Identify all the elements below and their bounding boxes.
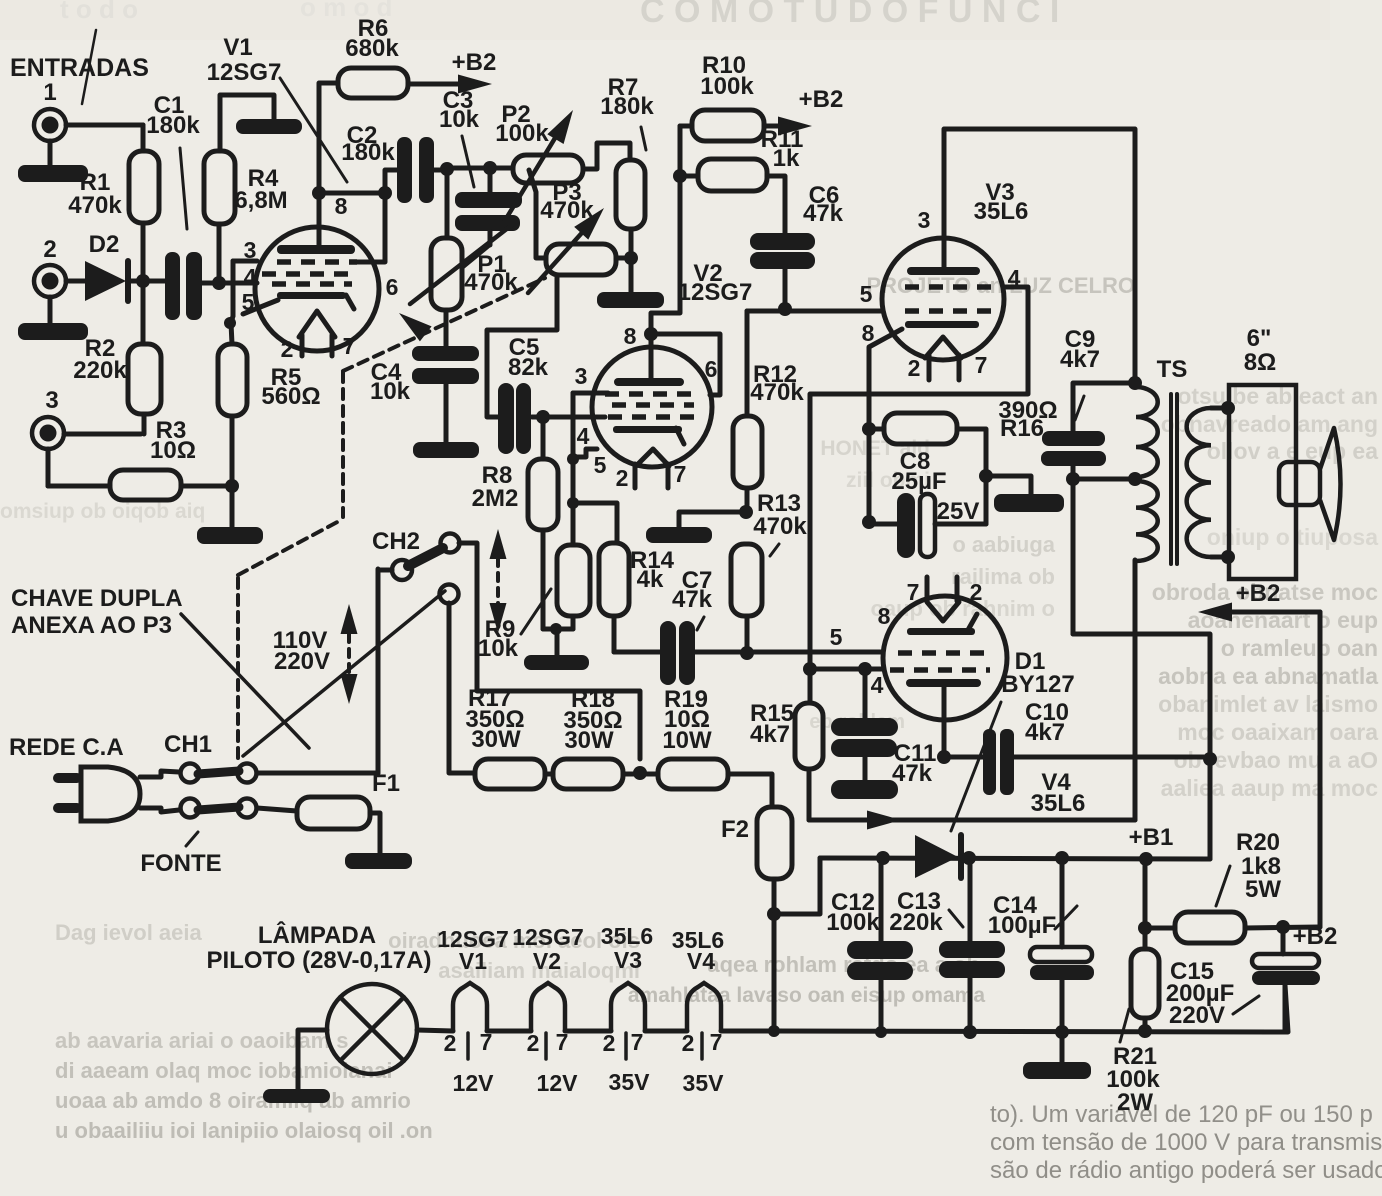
- svg-text:10Ω: 10Ω: [150, 437, 196, 464]
- svg-text:7: 7: [907, 579, 920, 605]
- svg-text:com tensão de 1000 V para tra: com tensão de 1000 V para transmis-: [990, 1129, 1382, 1156]
- svg-text:+B2: +B2: [452, 49, 497, 76]
- svg-text:470k: 470k: [750, 379, 804, 406]
- svg-text:V4: V4: [687, 948, 715, 974]
- svg-text:railima ob: railima ob: [951, 564, 1055, 589]
- svg-text:3: 3: [45, 387, 58, 414]
- svg-text:6,8M: 6,8M: [234, 187, 287, 214]
- svg-text:2: 2: [43, 236, 56, 263]
- svg-text:12SG7: 12SG7: [512, 924, 584, 950]
- svg-text:7: 7: [674, 461, 687, 487]
- svg-text:obanimlet av laismo: obanimlet av laismo: [1158, 691, 1378, 717]
- svg-text:LÂMPADA: LÂMPADA: [258, 921, 376, 949]
- svg-text:220k: 220k: [889, 909, 943, 936]
- svg-text:2M2: 2M2: [472, 485, 519, 512]
- svg-text:REDE C.A: REDE C.A: [9, 734, 124, 761]
- svg-text:25µF: 25µF: [891, 468, 946, 495]
- svg-text:82k: 82k: [508, 354, 549, 381]
- svg-text:8: 8: [335, 193, 348, 219]
- svg-text:oniup o tiuposa: oniup o tiuposa: [1207, 524, 1378, 550]
- svg-text:680k: 680k: [345, 35, 399, 62]
- svg-text:8: 8: [624, 323, 637, 349]
- svg-text:470k: 470k: [753, 513, 807, 540]
- svg-text:1: 1: [43, 79, 56, 106]
- svg-text:25V: 25V: [937, 498, 980, 525]
- svg-text:6: 6: [705, 356, 718, 382]
- svg-text:4: 4: [871, 672, 884, 698]
- svg-text:amahlataa lavaso oan eisup oma: amahlataa lavaso oan eisup omama: [628, 984, 985, 1007]
- svg-text:3: 3: [918, 207, 931, 233]
- svg-text:2: 2: [970, 579, 983, 605]
- svg-text:+B2: +B2: [1293, 923, 1338, 950]
- svg-text:aqea rohlam ratdo ea a ob: aqea rohlam ratdo ea a ob: [707, 952, 980, 977]
- svg-text:C O M O T U D O F U: C O M O T U D O F U N C I: [640, 0, 1059, 30]
- svg-text:100k: 100k: [700, 73, 754, 100]
- svg-text:7: 7: [975, 352, 988, 378]
- svg-text:R16: R16: [1000, 415, 1044, 442]
- svg-text:12V: 12V: [537, 1070, 579, 1096]
- svg-text:100µF: 100µF: [988, 912, 1057, 939]
- svg-text:5W: 5W: [1245, 876, 1281, 903]
- svg-text:3: 3: [575, 363, 588, 389]
- svg-text:aaliea aaup ma moc: aaliea aaup ma moc: [1161, 775, 1379, 801]
- svg-text:35L6: 35L6: [974, 198, 1029, 225]
- svg-text:V3: V3: [614, 947, 642, 973]
- svg-text:+B1: +B1: [1129, 824, 1174, 851]
- svg-text:D2: D2: [89, 231, 120, 258]
- svg-text:2: 2: [444, 1030, 457, 1056]
- svg-text:7: 7: [556, 1029, 569, 1055]
- svg-text:4k7: 4k7: [1025, 719, 1065, 746]
- svg-text:47k: 47k: [803, 200, 844, 227]
- svg-text:35L6: 35L6: [601, 923, 653, 949]
- svg-text:omsiup ob oiqob aiq: omsiup ob oiqob aiq: [0, 500, 205, 523]
- svg-text:12SG7: 12SG7: [207, 59, 282, 86]
- svg-text:2W: 2W: [1117, 1089, 1153, 1116]
- svg-text:4: 4: [577, 423, 590, 449]
- svg-text:2: 2: [281, 336, 294, 362]
- svg-text:100k: 100k: [495, 120, 549, 147]
- svg-text:7: 7: [710, 1029, 723, 1055]
- svg-text:CH2: CH2: [372, 528, 420, 555]
- svg-text:2: 2: [527, 1030, 540, 1056]
- svg-text:470k: 470k: [68, 192, 122, 219]
- svg-text:4k7: 4k7: [1060, 346, 1100, 373]
- svg-text:+B2: +B2: [1236, 580, 1281, 607]
- svg-text:7: 7: [480, 1029, 493, 1055]
- svg-text:t o d o: t o d o: [60, 0, 138, 24]
- svg-text:220V: 220V: [274, 648, 330, 675]
- svg-text:180k: 180k: [600, 93, 654, 120]
- svg-text:Dag ievol aeia: Dag ievol aeia: [55, 920, 203, 945]
- svg-text:47k: 47k: [892, 760, 933, 787]
- svg-text:V1: V1: [459, 948, 487, 974]
- svg-text:5: 5: [830, 624, 843, 650]
- svg-text:4k7: 4k7: [750, 721, 790, 748]
- svg-text:220V: 220V: [1169, 1002, 1225, 1029]
- svg-text:5: 5: [860, 281, 873, 307]
- svg-text:u obaailiiu ioi lanipiio olaio: u obaailiiu ioi lanipiio olaiosq oil .on: [55, 1118, 433, 1143]
- svg-text:ANEXA AO P3: ANEXA AO P3: [11, 612, 172, 639]
- svg-text:R20: R20: [1236, 829, 1280, 856]
- svg-text:5: 5: [594, 452, 607, 478]
- svg-text:são de rádio antigo poderá ser: são de rádio antigo poderá ser usado: [990, 1157, 1382, 1184]
- svg-text:35V: 35V: [683, 1070, 725, 1096]
- svg-text:560Ω: 560Ω: [261, 383, 320, 410]
- svg-text:47k: 47k: [672, 586, 713, 613]
- svg-text:BY127: BY127: [1001, 671, 1074, 698]
- svg-text:o ramleup oan: o ramleup oan: [1221, 635, 1378, 661]
- svg-text:30W: 30W: [564, 727, 614, 754]
- svg-text:6: 6: [386, 274, 399, 300]
- svg-text:100k: 100k: [826, 909, 880, 936]
- svg-text:+B2: +B2: [799, 86, 844, 113]
- svg-text:180k: 180k: [341, 139, 395, 166]
- svg-text:8: 8: [862, 320, 875, 346]
- svg-text:2: 2: [603, 1030, 616, 1056]
- svg-text:8: 8: [878, 603, 891, 629]
- svg-text:CH1: CH1: [164, 731, 212, 758]
- svg-text:10W: 10W: [662, 727, 712, 754]
- svg-text:470k: 470k: [464, 269, 518, 296]
- svg-text:V2: V2: [533, 948, 561, 974]
- svg-text:7: 7: [343, 333, 356, 359]
- svg-text:moc oaaixam oara: moc oaaixam oara: [1177, 719, 1378, 745]
- svg-text:6": 6": [1247, 325, 1272, 352]
- svg-text:2: 2: [682, 1030, 695, 1056]
- svg-text:7: 7: [631, 1029, 644, 1055]
- svg-text:12SG7: 12SG7: [678, 279, 753, 306]
- svg-text:to). Um variável de 120 pF ou: to). Um variável de 120 pF ou 150 p: [990, 1101, 1373, 1128]
- svg-text:3: 3: [244, 237, 257, 263]
- svg-text:2: 2: [908, 355, 921, 381]
- svg-text:8Ω: 8Ω: [1244, 349, 1277, 376]
- svg-text:4k: 4k: [637, 566, 664, 593]
- svg-text:PILOTO (28V-0,17A): PILOTO (28V-0,17A): [207, 947, 432, 974]
- svg-text:F2: F2: [721, 816, 749, 843]
- svg-text:V1: V1: [223, 34, 252, 61]
- svg-text:1k: 1k: [773, 145, 800, 172]
- svg-text:10k: 10k: [439, 106, 480, 133]
- svg-text:10k: 10k: [370, 378, 411, 405]
- svg-text:30W: 30W: [471, 726, 521, 753]
- svg-text:TS: TS: [1157, 356, 1188, 383]
- svg-text:35V: 35V: [609, 1069, 651, 1095]
- svg-text:o aabiuga: o aabiuga: [952, 532, 1055, 557]
- svg-text:180k: 180k: [146, 112, 200, 139]
- svg-text:CHAVE DUPLA: CHAVE DUPLA: [11, 585, 183, 612]
- svg-text:12V: 12V: [453, 1070, 495, 1096]
- svg-text:220k: 220k: [73, 357, 127, 384]
- svg-text:aobna ea abnamatla: aobna ea abnamatla: [1158, 663, 1378, 689]
- svg-text:FONTE: FONTE: [140, 850, 221, 877]
- svg-text:uoaa ab amdo 8 oiramiiq ab amr: uoaa ab amdo 8 oiramiiq ab amrio: [55, 1088, 411, 1113]
- svg-text:10k: 10k: [478, 635, 519, 662]
- svg-text:ENTRADAS: ENTRADAS: [10, 54, 149, 82]
- svg-text:2: 2: [616, 465, 629, 491]
- svg-text:35L6: 35L6: [1031, 790, 1086, 817]
